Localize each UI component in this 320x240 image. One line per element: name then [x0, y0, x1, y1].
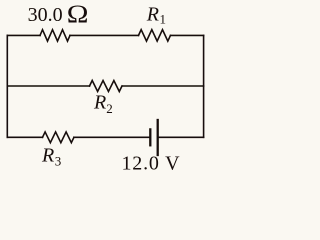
wire right vertical branch	[203, 35, 205, 137]
wire middle-left segment	[7, 85, 89, 87]
resistor 30.0 ohm (top left)	[40, 30, 70, 41]
wire top-middle segment	[70, 34, 139, 36]
wire bottom-right segment (battery to corner)	[159, 136, 204, 138]
resistor R3	[43, 132, 74, 143]
wire middle-right segment	[123, 85, 204, 87]
wire top-right segment	[171, 34, 204, 36]
svg-text:3: 3	[55, 154, 62, 169]
wire top-left segment	[7, 34, 40, 36]
svg-text:1: 1	[160, 12, 167, 27]
battery 12.0 V positive plate (long)	[157, 120, 159, 155]
svg-text:2: 2	[106, 101, 113, 116]
wire left vertical branch	[6, 35, 8, 137]
svg-text:30.0: 30.0	[28, 4, 63, 26]
battery 12.0 V negative plate (short)	[149, 129, 151, 145]
svg-text:12.0 V: 12.0 V	[122, 153, 181, 175]
svg-text:Ω: Ω	[67, 0, 89, 28]
wire bottom-left segment	[7, 136, 42, 138]
resistor R1	[139, 30, 171, 41]
svg-text:R: R	[93, 92, 106, 114]
svg-text:R: R	[146, 3, 159, 25]
svg-text:R: R	[41, 145, 54, 167]
wire bottom-middle segment (R3 to battery)	[74, 136, 149, 138]
resistor R2	[90, 81, 122, 92]
